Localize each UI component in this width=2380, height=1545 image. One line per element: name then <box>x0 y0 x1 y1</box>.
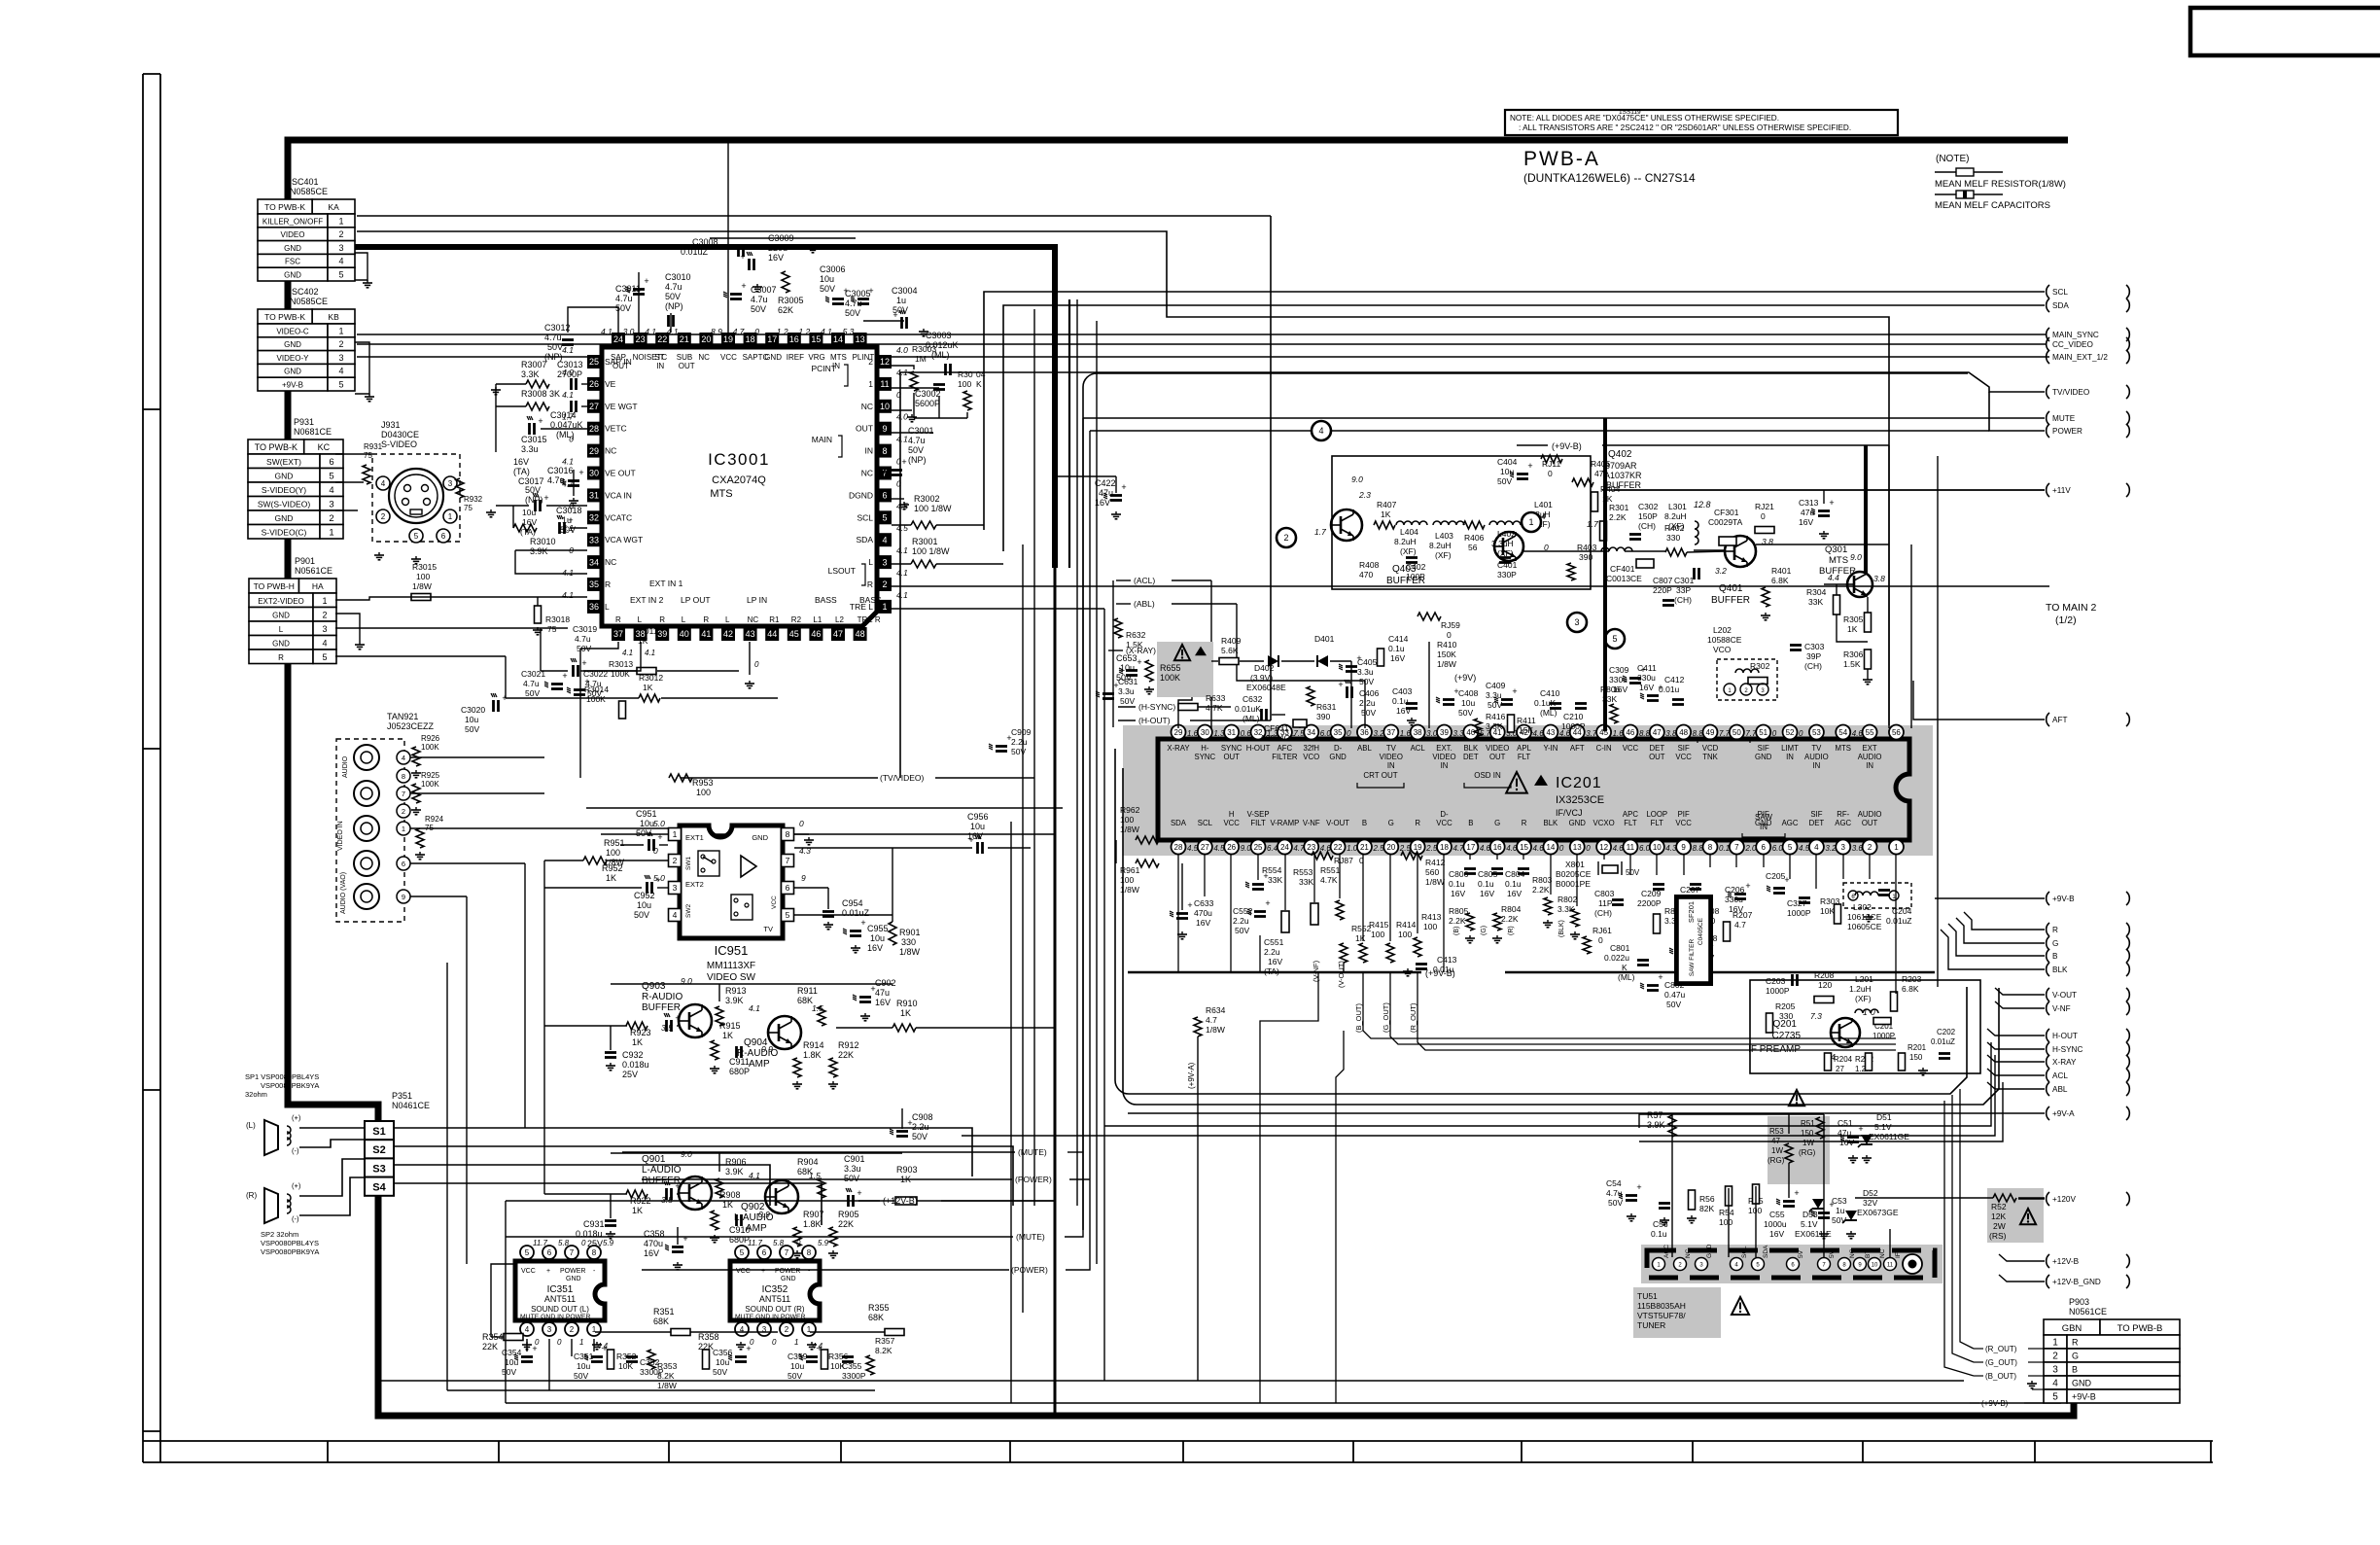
wires HOUT HSYNC XRAY ACL ABL right <box>1987 1029 2045 1036</box>
svg-text:R3002: R3002 <box>914 494 940 504</box>
svg-text:29: 29 <box>1174 728 1183 737</box>
svg-text:0.1u: 0.1u <box>1388 644 1405 653</box>
svg-text:10u: 10u <box>1461 698 1475 708</box>
svg-text:VCC: VCC <box>736 1268 751 1275</box>
svg-text:R3005: R3005 <box>778 296 804 305</box>
svg-text:5.1V: 5.1V <box>1801 1219 1818 1229</box>
svg-text:4.5: 4.5 <box>1187 844 1199 853</box>
svg-text:11P: 11P <box>1598 898 1613 908</box>
svg-text:S-VIDEO: S-VIDEO <box>381 439 417 449</box>
svg-text:(G_OUT): (G_OUT) <box>1985 1358 2017 1367</box>
svg-text:C54: C54 <box>1606 1178 1622 1188</box>
svg-text:22: 22 <box>1334 843 1343 852</box>
svg-text:AGC: AGC <box>1782 819 1799 827</box>
svg-text:1/8W: 1/8W <box>1425 877 1445 887</box>
svg-text:(DUNTKA126WEL6) -- CN27S14: (DUNTKA126WEL6) -- CN27S14 <box>1523 171 1696 185</box>
svg-text:5: 5 <box>329 472 333 482</box>
svg-text:D52: D52 <box>1863 1188 1878 1198</box>
svg-text:4: 4 <box>673 910 678 920</box>
svg-text:18: 18 <box>1440 843 1449 852</box>
svg-text:10u: 10u <box>870 933 885 943</box>
transistor Q201 IF PREAMP <box>1831 1018 1860 1047</box>
tuner gray bar <box>1641 1245 1942 1283</box>
svg-text:20: 20 <box>1386 843 1395 852</box>
svg-text:10u: 10u <box>640 819 654 828</box>
svg-text:1u: 1u <box>896 296 906 305</box>
svg-text:IN: IN <box>1812 761 1820 770</box>
svg-text:C631: C631 <box>1118 677 1138 686</box>
svg-text:R904: R904 <box>797 1157 819 1167</box>
svg-text:28: 28 <box>1174 843 1183 852</box>
svg-text:C932: C932 <box>622 1050 644 1060</box>
svg-text:J0523CEZZ: J0523CEZZ <box>387 721 435 731</box>
svg-text:RJ87: RJ87 <box>1334 856 1353 865</box>
svg-text:50V: 50V <box>1608 1198 1623 1208</box>
svg-text:8.2K: 8.2K <box>875 1346 892 1355</box>
svg-text:1/8W: 1/8W <box>412 581 432 591</box>
svg-text:OUT: OUT <box>1223 753 1240 761</box>
wire bundle mid verticals <box>1010 822 1012 1403</box>
wires speakers to S1-S4 <box>299 1127 365 1129</box>
svg-text:2: 2 <box>329 513 333 524</box>
svg-text:5.9: 5.9 <box>818 1239 829 1247</box>
svg-text:C55: C55 <box>1769 1210 1785 1219</box>
svg-text:(TA): (TA) <box>513 467 530 476</box>
net stub MUTE <box>2047 411 2049 425</box>
svg-text:4: 4 <box>882 535 887 544</box>
svg-text:(+): (+) <box>292 1113 301 1122</box>
svg-text:SW1: SW1 <box>685 857 692 870</box>
svg-text:150K: 150K <box>1437 650 1456 659</box>
svg-text:16V: 16V <box>875 998 891 1007</box>
svg-text:3.8: 3.8 <box>1665 729 1677 738</box>
node circles <box>1312 421 1331 440</box>
svg-text:(R_OUT): (R_OUT) <box>1409 1002 1417 1033</box>
svg-text:SP1 VSP0080PBL4YS: SP1 VSP0080PBL4YS <box>245 1072 319 1081</box>
svg-text:0.6: 0.6 <box>1241 729 1252 738</box>
svg-text:4: 4 <box>1318 426 1323 436</box>
svg-text:+: + <box>682 1234 687 1244</box>
svg-text:3.3K: 3.3K <box>1557 904 1575 914</box>
svg-text:4.1: 4.1 <box>896 590 908 600</box>
svg-text:SC402: SC402 <box>292 287 319 297</box>
svg-text:43: 43 <box>746 629 755 639</box>
svg-text:22: 22 <box>657 334 667 344</box>
svg-text:2: 2 <box>338 229 343 239</box>
wires RCA to right <box>410 756 544 758</box>
svg-text:4.6: 4.6 <box>1533 729 1545 738</box>
svg-text:44: 44 <box>767 629 777 639</box>
svg-text:C2735: C2735 <box>1772 1031 1802 1041</box>
svg-text:CF301: CF301 <box>1714 508 1739 517</box>
svg-text:GND: GND <box>1755 753 1772 761</box>
svg-text:NC: NC <box>861 469 873 478</box>
VCD TNK bracket pins 49-50 <box>1697 739 1750 743</box>
svg-text:1K: 1K <box>1381 509 1391 519</box>
svg-text:4.6: 4.6 <box>1506 844 1518 853</box>
wire L row <box>335 627 568 629</box>
svg-text:C3003: C3003 <box>926 331 952 340</box>
svg-text:4.1: 4.1 <box>645 327 656 336</box>
svg-text:2.5: 2.5 <box>1425 844 1438 853</box>
net stub MAIN_EXT_1/2 <box>2047 350 2049 364</box>
svg-text:NC: NC <box>1879 1248 1886 1258</box>
svg-text:V-RAMP: V-RAMP <box>1270 819 1299 827</box>
net stub X-RAY <box>2047 1055 2049 1069</box>
svg-text:50V: 50V <box>1011 747 1026 756</box>
svg-text:100: 100 <box>1371 930 1384 939</box>
svg-text:50V: 50V <box>751 304 766 314</box>
svg-text:C309: C309 <box>1609 665 1629 675</box>
svg-text:4.7u: 4.7u <box>523 679 540 688</box>
svg-text:R412: R412 <box>1425 858 1446 867</box>
svg-text:470u: 470u <box>644 1239 663 1248</box>
svg-text:(TA): (TA) <box>1264 966 1279 976</box>
svg-text:GND: GND <box>1329 753 1347 761</box>
svg-text:C3001: C3001 <box>908 426 934 436</box>
svg-text:3.7: 3.7 <box>1586 729 1597 738</box>
IC201 title <box>1506 772 1527 793</box>
svg-text:2: 2 <box>882 579 887 589</box>
svg-text:32: 32 <box>589 513 599 523</box>
svg-text:100: 100 <box>1120 875 1134 885</box>
svg-text:A0034CE: A0034CE <box>1260 733 1296 743</box>
svg-text:6.0: 6.0 <box>1639 844 1651 853</box>
svg-text:C3013: C3013 <box>557 360 583 369</box>
svg-text:ACL: ACL <box>2052 1071 2068 1080</box>
svg-text:04: 04 <box>976 369 986 379</box>
svg-text:+: + <box>1265 898 1270 908</box>
svg-text:9: 9 <box>402 893 405 901</box>
svg-text:GND: GND <box>284 340 301 349</box>
svg-text:3.0: 3.0 <box>1426 729 1438 738</box>
svg-text:(-): (-) <box>292 1146 299 1155</box>
svg-text:1000u: 1000u <box>1764 1219 1787 1229</box>
svg-text:0: 0 <box>754 660 759 669</box>
svg-text:GND: GND <box>764 353 782 362</box>
svg-text:30: 30 <box>1201 728 1209 737</box>
svg-text:40: 40 <box>680 629 689 639</box>
svg-text:42: 42 <box>723 629 733 639</box>
svg-text:BLK: BLK <box>1544 819 1559 827</box>
svg-text:TO PWB-K: TO PWB-K <box>255 442 297 452</box>
svg-text:8: 8 <box>402 772 405 781</box>
svg-text:C910: C910 <box>729 1225 751 1235</box>
svg-text:4.7K: 4.7K <box>1206 703 1223 713</box>
svg-text:TV: TV <box>763 925 773 933</box>
svg-text:2: 2 <box>1283 533 1288 543</box>
svg-text:50V: 50V <box>502 1367 516 1377</box>
svg-text:7: 7 <box>402 790 405 798</box>
title block top right corner <box>2190 8 2380 55</box>
svg-text:50V: 50V <box>1120 696 1135 706</box>
svg-text:C3012: C3012 <box>544 323 571 333</box>
svg-text:(R): (R) <box>246 1191 257 1200</box>
svg-text:R401: R401 <box>1771 566 1792 576</box>
svg-text:C3020: C3020 <box>461 705 485 715</box>
wire MUTE top run <box>1083 417 1989 419</box>
svg-text:0: 0 <box>799 819 804 828</box>
svg-text:10: 10 <box>880 402 890 411</box>
svg-text:G: G <box>1494 819 1500 827</box>
svg-text:39: 39 <box>657 629 667 639</box>
svg-text:1K: 1K <box>632 1206 643 1215</box>
svg-text:1: 1 <box>322 596 327 606</box>
svg-text:100K: 100K <box>1160 673 1180 683</box>
svg-text:17: 17 <box>767 334 777 344</box>
wire vcc segment <box>1068 299 1070 568</box>
svg-text:R908: R908 <box>719 1190 741 1200</box>
svg-text:+: + <box>675 1181 680 1191</box>
svg-text:C908: C908 <box>912 1112 933 1122</box>
svg-text:R: R <box>2052 926 2058 934</box>
svg-text:0: 0 <box>1447 630 1452 640</box>
svg-text:SYNC: SYNC <box>1195 753 1216 761</box>
svg-text:50V: 50V <box>665 292 681 301</box>
svg-text:3: 3 <box>329 500 333 510</box>
svg-text:R925: R925 <box>421 771 440 780</box>
svg-text:50V: 50V <box>1235 926 1249 935</box>
svg-text:30: 30 <box>589 469 599 478</box>
svg-text:SYNC: SYNC <box>1221 744 1242 753</box>
svg-text:50V: 50V <box>560 525 576 535</box>
svg-text:TO PWB-K: TO PWB-K <box>264 312 305 322</box>
net stub +11V <box>2047 483 2049 497</box>
svg-text:R901: R901 <box>899 928 921 937</box>
svg-text:B0001PE: B0001PE <box>1556 879 1591 889</box>
svg-text:12.8: 12.8 <box>1694 500 1711 509</box>
svg-text:AUDIO: AUDIO <box>1858 753 1882 761</box>
IC3001 left pins <box>587 355 601 369</box>
wires mid verticals <box>1259 935 1261 972</box>
svg-text:4.1: 4.1 <box>562 568 574 578</box>
svg-text:1.0: 1.0 <box>1347 844 1358 853</box>
svg-text:R407: R407 <box>1377 500 1397 509</box>
svg-text:SCL: SCL <box>2052 288 2068 297</box>
svg-text:39P: 39P <box>1806 651 1821 661</box>
svg-text:4: 4 <box>2052 1379 2058 1389</box>
svg-text:R: R <box>703 615 709 624</box>
svg-text:C3019: C3019 <box>573 624 597 634</box>
svg-text:(ML): (ML) <box>556 430 575 439</box>
svg-text:SIF: SIF <box>1810 810 1822 819</box>
svg-text:1.2uH: 1.2uH <box>1849 984 1872 994</box>
svg-text:L: L <box>605 602 610 612</box>
transistor Q403 <box>1331 509 1362 541</box>
svg-text:4.7u: 4.7u <box>615 294 633 303</box>
svg-text:MEAN MELF CAPACITORS: MEAN MELF CAPACITORS <box>1935 200 2050 211</box>
svg-text:P901: P901 <box>295 556 315 566</box>
wire VIDEO line from SC401 <box>357 231 1889 728</box>
svg-text:DGND: DGND <box>849 490 873 500</box>
svg-text:+: + <box>1745 881 1750 891</box>
svg-text:38: 38 <box>1414 728 1422 737</box>
svg-text:2.2u: 2.2u <box>1233 916 1249 926</box>
svg-text:R932: R932 <box>464 495 483 504</box>
svg-text:H-OUT: H-OUT <box>1246 744 1271 753</box>
svg-text:C901: C901 <box>844 1154 865 1164</box>
svg-text:6: 6 <box>329 457 333 468</box>
svg-text:15: 15 <box>1520 843 1528 852</box>
svg-text:EXT.: EXT. <box>1436 744 1452 753</box>
svg-text:1: 1 <box>338 326 343 335</box>
svg-text:0.01uZ: 0.01uZ <box>1886 916 1911 926</box>
svg-text:AUDIO: AUDIO <box>1858 810 1882 819</box>
svg-text:VCC: VCC <box>1675 819 1692 827</box>
svg-text:6: 6 <box>1761 843 1766 852</box>
svg-text:82K: 82K <box>1699 1204 1714 1213</box>
svg-text:(BLK): (BLK) <box>1558 920 1565 937</box>
net stub V-OUT <box>2047 988 2049 1001</box>
svg-text:5: 5 <box>2052 1392 2058 1403</box>
svg-text:H-: H- <box>1201 744 1209 753</box>
svg-text:SCL: SCL <box>1198 819 1213 827</box>
wires buffer out <box>1694 549 1725 551</box>
svg-text:+: + <box>568 515 573 525</box>
svg-text:POWER: POWER <box>2052 427 2082 436</box>
svg-text:12: 12 <box>1599 843 1608 852</box>
svg-text:10u: 10u <box>465 715 478 724</box>
svg-text:4.1: 4.1 <box>821 327 832 336</box>
svg-text:+: + <box>543 493 548 503</box>
svg-text:4.7: 4.7 <box>1453 844 1465 853</box>
svg-text:33: 33 <box>589 535 599 544</box>
svg-text:S3: S3 <box>372 1163 385 1175</box>
ground J931 <box>378 552 380 555</box>
svg-text:BUFFER: BUFFER <box>642 1002 681 1013</box>
svg-text:LSOUT: LSOUT <box>828 566 856 576</box>
svg-text:IF: IF <box>1895 1252 1902 1258</box>
svg-text:VCA WGT: VCA WGT <box>605 535 643 544</box>
svg-text:GND: GND <box>2072 1379 2092 1388</box>
svg-text:GND: GND <box>781 1276 796 1282</box>
svg-text:C653: C653 <box>1116 653 1137 663</box>
svg-text:+: + <box>1636 1182 1641 1192</box>
svg-text:C3018: C3018 <box>556 506 582 515</box>
svg-text:R804: R804 <box>1501 904 1522 914</box>
svg-text:2.2K: 2.2K <box>1609 512 1627 522</box>
svg-text:AFT: AFT <box>1570 744 1585 753</box>
svg-text:+: + <box>546 1268 550 1275</box>
svg-text:SOUND OUT (L): SOUND OUT (L) <box>531 1305 589 1314</box>
svg-text:2: 2 <box>1868 843 1872 852</box>
svg-text:41: 41 <box>701 629 711 639</box>
svg-text:(+9V-B): (+9V-B) <box>1552 441 1582 451</box>
wire +9V-A right <box>1128 1112 2045 1114</box>
svg-text:NC: NC <box>698 353 710 362</box>
IC U201 main box <box>1158 739 1909 840</box>
svg-text:MTS: MTS <box>710 488 732 500</box>
svg-text:R906: R906 <box>725 1157 747 1167</box>
svg-text:(+9V): (+9V) <box>1454 673 1476 683</box>
svg-text:27: 27 <box>589 402 599 411</box>
svg-text:1: 1 <box>794 1338 798 1347</box>
svg-text:SCL: SCL <box>857 512 873 522</box>
svg-text:SAW: SAW <box>1755 813 1772 822</box>
svg-text:ST: ST <box>654 353 664 362</box>
svg-text:: ALL TRANSISTORS ARE " 2SC241: : ALL TRANSISTORS ARE " 2SC2412 " OR "2S… <box>1519 123 1851 132</box>
svg-text:5: 5 <box>786 910 790 920</box>
svg-text:R357: R357 <box>875 1336 895 1346</box>
svg-text:50: 50 <box>1732 728 1741 737</box>
IC IC351 pins <box>520 1246 534 1259</box>
svg-text:20: 20 <box>701 334 711 344</box>
svg-text:+: + <box>1137 657 1141 667</box>
svg-text:4.1: 4.1 <box>622 649 633 657</box>
svg-text:4.1: 4.1 <box>562 590 574 600</box>
IC201 bottom pins <box>1172 840 1186 855</box>
svg-text:10: 10 <box>1653 843 1662 852</box>
svg-text:C803: C803 <box>1594 889 1615 898</box>
svg-text:0.018u: 0.018u <box>622 1060 649 1070</box>
svg-text:5: 5 <box>322 652 327 662</box>
svg-text:MUTE: MUTE <box>2052 414 2076 423</box>
wires tuner verticals <box>1671 1114 1673 1257</box>
svg-text:330: 330 <box>1666 533 1680 543</box>
svg-text:VTST5UF78/: VTST5UF78/ <box>1637 1311 1686 1320</box>
svg-text:12: 12 <box>880 357 890 367</box>
svg-text:0: 0 <box>896 390 901 400</box>
svg-text:16V: 16V <box>1769 1229 1784 1239</box>
svg-text:100 1/8W: 100 1/8W <box>914 504 952 513</box>
svg-text:24: 24 <box>1280 843 1289 852</box>
svg-text:AUDIO: AUDIO <box>342 755 349 778</box>
svg-text:5: 5 <box>338 270 343 280</box>
IC U3001 main box <box>602 347 877 626</box>
svg-text:EXT2-VIDEO: EXT2-VIDEO <box>258 597 304 606</box>
svg-text:BT: BT <box>1865 1250 1872 1258</box>
svg-text:(XF): (XF) <box>1435 550 1452 560</box>
svg-text:0.01uZ: 0.01uZ <box>1931 1037 1955 1046</box>
svg-text:VCC: VCC <box>1675 753 1692 761</box>
svg-text:2.2u: 2.2u <box>912 1122 929 1132</box>
svg-text:16V: 16V <box>1639 683 1654 692</box>
svg-text:47u: 47u <box>875 988 890 998</box>
svg-text:R355: R355 <box>868 1303 890 1313</box>
svg-text:37: 37 <box>1386 728 1395 737</box>
svg-text:C911: C911 <box>729 1057 750 1067</box>
svg-text:68K: 68K <box>868 1313 884 1322</box>
svg-text:TUNER: TUNER <box>1637 1320 1665 1330</box>
svg-text:ANT511: ANT511 <box>544 1294 576 1304</box>
svg-text:4.7u: 4.7u <box>751 295 768 304</box>
svg-text:EX06048E: EX06048E <box>1246 683 1286 692</box>
svg-text:EX0611GE: EX0611GE <box>1869 1132 1909 1141</box>
svg-text:1.5K: 1.5K <box>1843 659 1861 669</box>
svg-text:R2: R2 <box>791 615 802 624</box>
svg-text:SIF: SIF <box>1758 744 1769 753</box>
svg-text:CRT OUT: CRT OUT <box>1363 771 1397 780</box>
svg-text:4: 4 <box>338 257 343 266</box>
svg-text:(CH): (CH) <box>1638 521 1656 531</box>
svg-text:50V: 50V <box>634 910 649 920</box>
svg-text:C3021: C3021 <box>521 669 545 679</box>
net stub H-OUT <box>2047 1029 2049 1042</box>
svg-text:3.3: 3.3 <box>1453 729 1465 738</box>
svg-text:R3015: R3015 <box>412 562 437 572</box>
svg-text:HA: HA <box>312 581 324 591</box>
svg-text:9.0: 9.0 <box>1241 844 1252 853</box>
svg-text:(R_OUT): (R_OUT) <box>1985 1345 2017 1353</box>
svg-text:C202: C202 <box>1937 1028 1956 1036</box>
svg-text:1000P: 1000P <box>1787 908 1811 918</box>
svg-text:R1: R1 <box>769 615 780 624</box>
svg-text:+: + <box>741 281 746 291</box>
svg-text:C354: C354 <box>502 1348 522 1357</box>
svg-text:R913: R913 <box>725 986 747 996</box>
svg-text:VSP0080PBK9YA: VSP0080PBK9YA <box>261 1247 319 1256</box>
wire Q301 base <box>1824 583 1847 585</box>
